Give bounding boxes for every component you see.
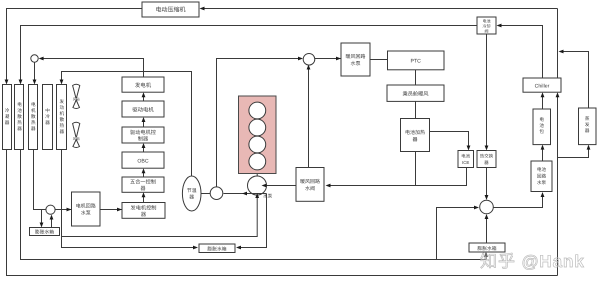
wire p1 to motor loop pump (55, 209, 71, 211)
fan 1 (73, 84, 80, 98)
svg-text:暖风回路: 暖风回路 (345, 53, 365, 60)
svg-text:风扇: 风扇 (73, 97, 80, 101)
wire arrow up into engine pump (255, 193, 259, 198)
wire engine pump top stub (256, 174, 258, 178)
wire stack arrow motor to generator (143, 95, 145, 101)
wire motor loop pump to generator controller (100, 209, 122, 211)
wire PTC to cabin heater (415, 70, 417, 85)
wire y259.5 tee up to junction j4 (437, 208, 477, 260)
svg-text:OBC: OBC (137, 158, 148, 164)
wire y185 line ICE to heater valve (328, 168, 467, 186)
wire cabin heater to battery heater (415, 101, 417, 118)
cabin heater 乘员舱暖风 (387, 85, 444, 101)
svg-text:电机散热器: 电机散热器 (31, 102, 36, 131)
svg-text:电池包: 电池包 (539, 117, 544, 134)
wire heat exchanger down to junction j4 (486, 168, 488, 198)
wire compressor suction from right bus (201, 8, 558, 10)
svg-text:蒸发器: 蒸发器 (585, 116, 590, 133)
wire compressor discharge to condenser (7, 9, 143, 82)
battery pack 电池包 (533, 109, 551, 145)
motor loop pump 电机回路水泵 (72, 192, 101, 226)
battery ICE box 电池ICE (458, 151, 474, 168)
wire battery radiator bottom bus y259.5 (21, 150, 487, 260)
svg-text:电池散热器: 电池散热器 (17, 102, 22, 131)
svg-text:知乎 @Hank: 知乎 @Hank (480, 252, 585, 271)
cylinder 1 (249, 102, 266, 119)
wire stack arrow obc to mcu (143, 146, 145, 152)
svg-text:暖风回路: 暖风回路 (300, 178, 320, 185)
fan 2 (73, 122, 80, 137)
wire right bus bottom to chiller (557, 96, 559, 276)
wire stack arrow five to obc (143, 171, 145, 177)
svg-text:乘员舱暖风: 乘员舱暖风 (403, 91, 430, 98)
junction j4 (480, 200, 494, 214)
five-in-one controller 五合一控制器 (122, 177, 164, 192)
wire condenser bottom line y275 (7, 150, 558, 276)
wire heater valve left to engine pump (263, 185, 296, 187)
compressor 电动压缩机 (142, 2, 199, 17)
heater junction j3 (303, 54, 315, 66)
wire j1 down to motor radiator (34, 62, 36, 81)
svg-text:驱动电机: 驱动电机 (132, 107, 154, 114)
wire battery pump to battery pack (542, 148, 544, 161)
svg-text:电池加热: 电池加热 (405, 129, 425, 136)
heater loop pump 暖风回路水泵 (341, 43, 370, 76)
wire y193 line passing under engine pump (247, 193, 267, 195)
wire tank1 up to p1 (51, 217, 53, 228)
svg-text:器: 器 (412, 137, 417, 143)
generator 发电机 (122, 77, 164, 92)
svg-text:五合一控制: 五合一控制 (130, 179, 156, 186)
wire bus branch to evaporator bottom (558, 148, 589, 158)
wire battery heater down to y185 line (415, 152, 417, 186)
cylinder 3 (249, 136, 266, 153)
svg-text:发动机散热器: 发动机散热器 (59, 99, 64, 134)
heater loop valve 暖风回路水阀 (296, 168, 324, 202)
svg-text:膨胀水箱: 膨胀水箱 (35, 229, 54, 236)
expansion tank 1 膨胀水箱 (30, 228, 60, 236)
wire j2 to thermostat (201, 193, 210, 195)
svg-text:水泵: 水泵 (81, 210, 91, 217)
Chiller (523, 78, 561, 92)
PTC (388, 51, 445, 70)
wire y193 line to small junction j2 (224, 193, 267, 195)
wire evaporator top to suction bus (560, 52, 589, 109)
engine block (pink) (239, 96, 277, 174)
svg-text:阀: 阀 (485, 29, 489, 34)
wire heater pump to PTC (370, 59, 388, 61)
expansion tank 2 膨胀水箱 (199, 244, 235, 253)
svg-text:发电机: 发电机 (135, 82, 152, 89)
svg-text:制器: 制器 (138, 135, 149, 142)
aux pump circle p1 (46, 205, 55, 214)
svg-text:水泵: 水泵 (537, 180, 547, 185)
svg-text:中冷器: 中冷器 (45, 108, 50, 125)
svg-text:器: 器 (141, 211, 147, 218)
thermostat 节温器 (182, 176, 201, 211)
battery cooling valve 电池冷却阀 (477, 17, 496, 34)
svg-text:风扇: 风扇 (73, 137, 80, 141)
expansion tank 3 膨胀水箱 (469, 243, 505, 252)
svg-text:冷凝器: 冷凝器 (5, 108, 10, 125)
battery heater 电池加热器 (401, 119, 430, 152)
svg-text:电池: 电池 (461, 154, 470, 159)
OBC (122, 152, 164, 168)
drive motor 驱动电机 (122, 101, 164, 117)
wire battery cooling valve down to heat exchanger (486, 34, 488, 147)
radiator 电机散热器 (29, 85, 38, 150)
wire tank3 up to j4 (486, 217, 488, 244)
motor controller 驱动电机控制器 (122, 127, 164, 143)
wire j4 to battery pump (494, 195, 543, 208)
evaporator 蒸发器 (579, 108, 597, 145)
svg-text:水泵: 水泵 (263, 194, 273, 199)
wire engine tee up to heater junction y59 (217, 59, 302, 187)
svg-text:ICE: ICE (462, 160, 469, 165)
cylinder 4 (249, 153, 266, 170)
svg-text:电机回路: 电机回路 (76, 203, 96, 210)
battery loop pump 电池回路水泵 (531, 161, 552, 192)
svg-text:电动压缩机: 电动压缩机 (155, 6, 185, 14)
wire thermostat to engine radiator y72 (62, 72, 192, 177)
svg-text:Chiller: Chiller (535, 84, 550, 90)
svg-text:器: 器 (484, 160, 489, 165)
svg-text:水阀: 水阀 (305, 185, 315, 192)
svg-text:热交换: 热交换 (480, 154, 494, 159)
wire heater valve up to junction j3 (308, 67, 310, 168)
wire motor radiator bottom to aux pump p1 (34, 150, 46, 210)
wire battery pack to chiller (542, 96, 544, 110)
wire engine radiator bottom loop to engine pump (62, 150, 197, 248)
svg-text:PTC: PTC (411, 59, 422, 65)
radiator 中冷器 (43, 85, 53, 150)
wire valve right from chiller top (498, 26, 543, 79)
wire battery heater right to ICE top (430, 132, 469, 148)
wire generator to junction j1 (40, 59, 144, 78)
radiator 电池散热器 (15, 85, 24, 150)
svg-text:膨胀水箱: 膨胀水箱 (207, 246, 226, 253)
junction j1 (31, 55, 38, 62)
radiator 发动机散热器 (57, 85, 67, 150)
svg-text:膨胀水箱: 膨胀水箱 (477, 245, 496, 252)
svg-text:器: 器 (140, 185, 146, 192)
svg-text:水泵: 水泵 (350, 60, 360, 67)
wire j3 to heater pump (315, 58, 341, 60)
junction j2 (210, 187, 223, 200)
svg-text:回路: 回路 (537, 174, 547, 179)
svg-text:节温: 节温 (187, 187, 197, 194)
svg-text:器: 器 (189, 195, 194, 201)
wire battery-radiator top line y26 (21, 26, 478, 82)
svg-text:电池: 电池 (537, 167, 547, 172)
engine water pump 水泵 (248, 176, 267, 195)
radiator 冷凝器 (3, 85, 12, 150)
wire tank1 down arrow (41, 210, 43, 225)
generator controller 发电机控制器 (122, 203, 165, 219)
svg-text:发电机控制: 发电机控制 (131, 204, 157, 211)
cylinder 2 (249, 119, 266, 136)
heat exchanger 热交换器 (477, 151, 496, 168)
svg-text:驱动电机控: 驱动电机控 (130, 129, 156, 136)
wire stack arrow mcu to motor (143, 120, 145, 127)
wire stack arrow gcu to five (143, 196, 145, 203)
